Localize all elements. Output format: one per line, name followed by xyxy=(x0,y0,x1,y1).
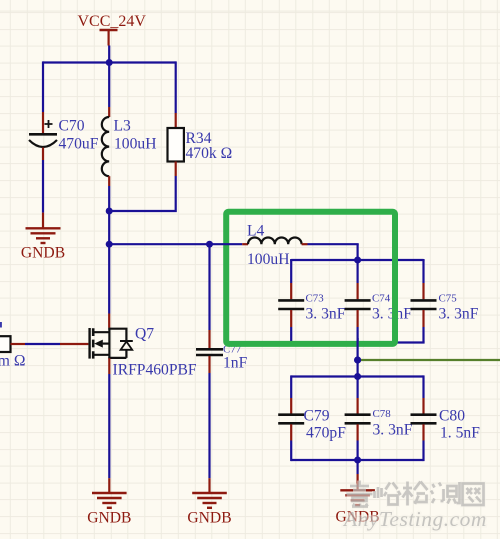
capacitor C78 xyxy=(345,377,413,461)
wire Q7 drain xyxy=(108,244,110,313)
svg-text:3. 3nF: 3. 3nF xyxy=(306,306,346,323)
svg-text:AnyTesting.com: AnyTesting.com xyxy=(342,507,487,531)
capacitor C79 xyxy=(278,375,346,461)
capacitor C80 xyxy=(411,375,481,461)
wire R34 lower xyxy=(110,176,176,211)
svg-text:L4: L4 xyxy=(247,223,265,240)
wire C70 branch upper xyxy=(42,61,44,112)
wire L4 output down xyxy=(357,244,359,260)
node junction L3/R34 xyxy=(106,208,113,215)
wire bottom rail of C73-C75 xyxy=(291,341,423,342)
svg-text:C75: C75 xyxy=(439,292,458,304)
svg-text:IRFP460PBF: IRFP460PBF xyxy=(113,362,197,379)
svg-text:Q7: Q7 xyxy=(135,326,154,343)
svg-text:1nF: 1nF xyxy=(223,355,248,372)
svg-text:470pF: 470pF xyxy=(306,425,346,442)
svg-text:1. 5nF: 1. 5nF xyxy=(440,425,480,442)
wire gate xyxy=(25,343,60,345)
node junction main/L4 rail xyxy=(106,241,113,248)
pin gate stub xyxy=(60,343,88,345)
svg-text:GNDB: GNDB xyxy=(21,245,65,262)
wire VCC stub to top rail xyxy=(108,46,110,63)
ground GNDB under bank xyxy=(336,474,380,526)
svg-text:VCC_24V: VCC_24V xyxy=(78,13,147,30)
svg-text:C80: C80 xyxy=(439,408,465,425)
inductor L4 xyxy=(242,223,307,269)
node junction VCC rail xyxy=(106,59,113,66)
resistor gate (partial, left edge) xyxy=(0,322,25,370)
svg-text:3. 3nF: 3. 3nF xyxy=(373,422,413,439)
resistor R34 xyxy=(168,113,233,176)
svg-text:100uH: 100uH xyxy=(247,251,289,268)
wire L3 branch upper xyxy=(108,63,110,108)
svg-text:0m Ω: 0m Ω xyxy=(0,353,25,370)
power VCC_24V xyxy=(78,13,147,46)
capacitor C77 xyxy=(196,330,248,373)
ground GNDB under C70 xyxy=(21,213,65,262)
svg-text:C79: C79 xyxy=(304,408,330,425)
svg-text:C74: C74 xyxy=(372,292,391,304)
capacitor C73 xyxy=(278,260,345,343)
wire L3 node down xyxy=(108,211,110,244)
svg-text:470uF: 470uF xyxy=(59,136,99,153)
node junction bank bottom xyxy=(354,457,361,464)
wire C77 to ground xyxy=(208,373,210,478)
wire C77 upper xyxy=(208,244,210,330)
capacitor C70 xyxy=(29,112,99,160)
node junction bank top xyxy=(354,373,361,380)
wire Q7 source to ground xyxy=(108,374,110,478)
wire top rail y=62.5 xyxy=(43,61,176,63)
node junction C74 top xyxy=(354,257,361,264)
pin Q7 drain stub xyxy=(108,314,110,328)
svg-text:C73: C73 xyxy=(306,292,325,304)
svg-text:3. 3nF: 3. 3nF xyxy=(439,306,479,323)
wire R34 branch upper xyxy=(175,61,177,113)
svg-text:L3: L3 xyxy=(114,118,132,135)
wire C74 column through box edge xyxy=(357,338,359,377)
wire green net to right edge xyxy=(358,359,500,361)
wire top rail of C73-C75 xyxy=(291,259,423,260)
transistor Q7 xyxy=(90,326,197,379)
wire top rail of C79-C80 bank xyxy=(291,375,423,377)
node junction green net (top copy) xyxy=(354,357,361,364)
wire bank to ground xyxy=(357,460,359,474)
wire L3 lower xyxy=(108,186,110,211)
wire C70 to ground xyxy=(42,160,44,213)
capacitor C74 xyxy=(345,260,413,343)
inductor L3 xyxy=(102,107,157,186)
pin Q7 source stub xyxy=(108,358,110,374)
node junction C77 tap xyxy=(206,241,213,248)
svg-text:470k Ω: 470k Ω xyxy=(186,145,233,162)
svg-text:C70: C70 xyxy=(59,118,85,135)
svg-text:GNDB: GNDB xyxy=(87,510,131,527)
svg-text:GNDB: GNDB xyxy=(187,510,231,527)
node junction green net xyxy=(354,357,361,364)
watermark 嘉峪检测网 (drawn strokes) xyxy=(347,481,484,507)
ground GNDB under Q7 xyxy=(87,478,131,526)
wire bottom rail of C79-C80 bank xyxy=(291,459,423,461)
svg-text:100uH: 100uH xyxy=(114,136,156,153)
wire main node to L4 xyxy=(109,243,242,245)
svg-text:C78: C78 xyxy=(373,408,392,420)
highlight green box xyxy=(226,212,395,344)
wire L4 to C74 column xyxy=(308,243,359,245)
capacitor C75 xyxy=(411,260,479,343)
ground GNDB under C77 xyxy=(187,478,231,526)
